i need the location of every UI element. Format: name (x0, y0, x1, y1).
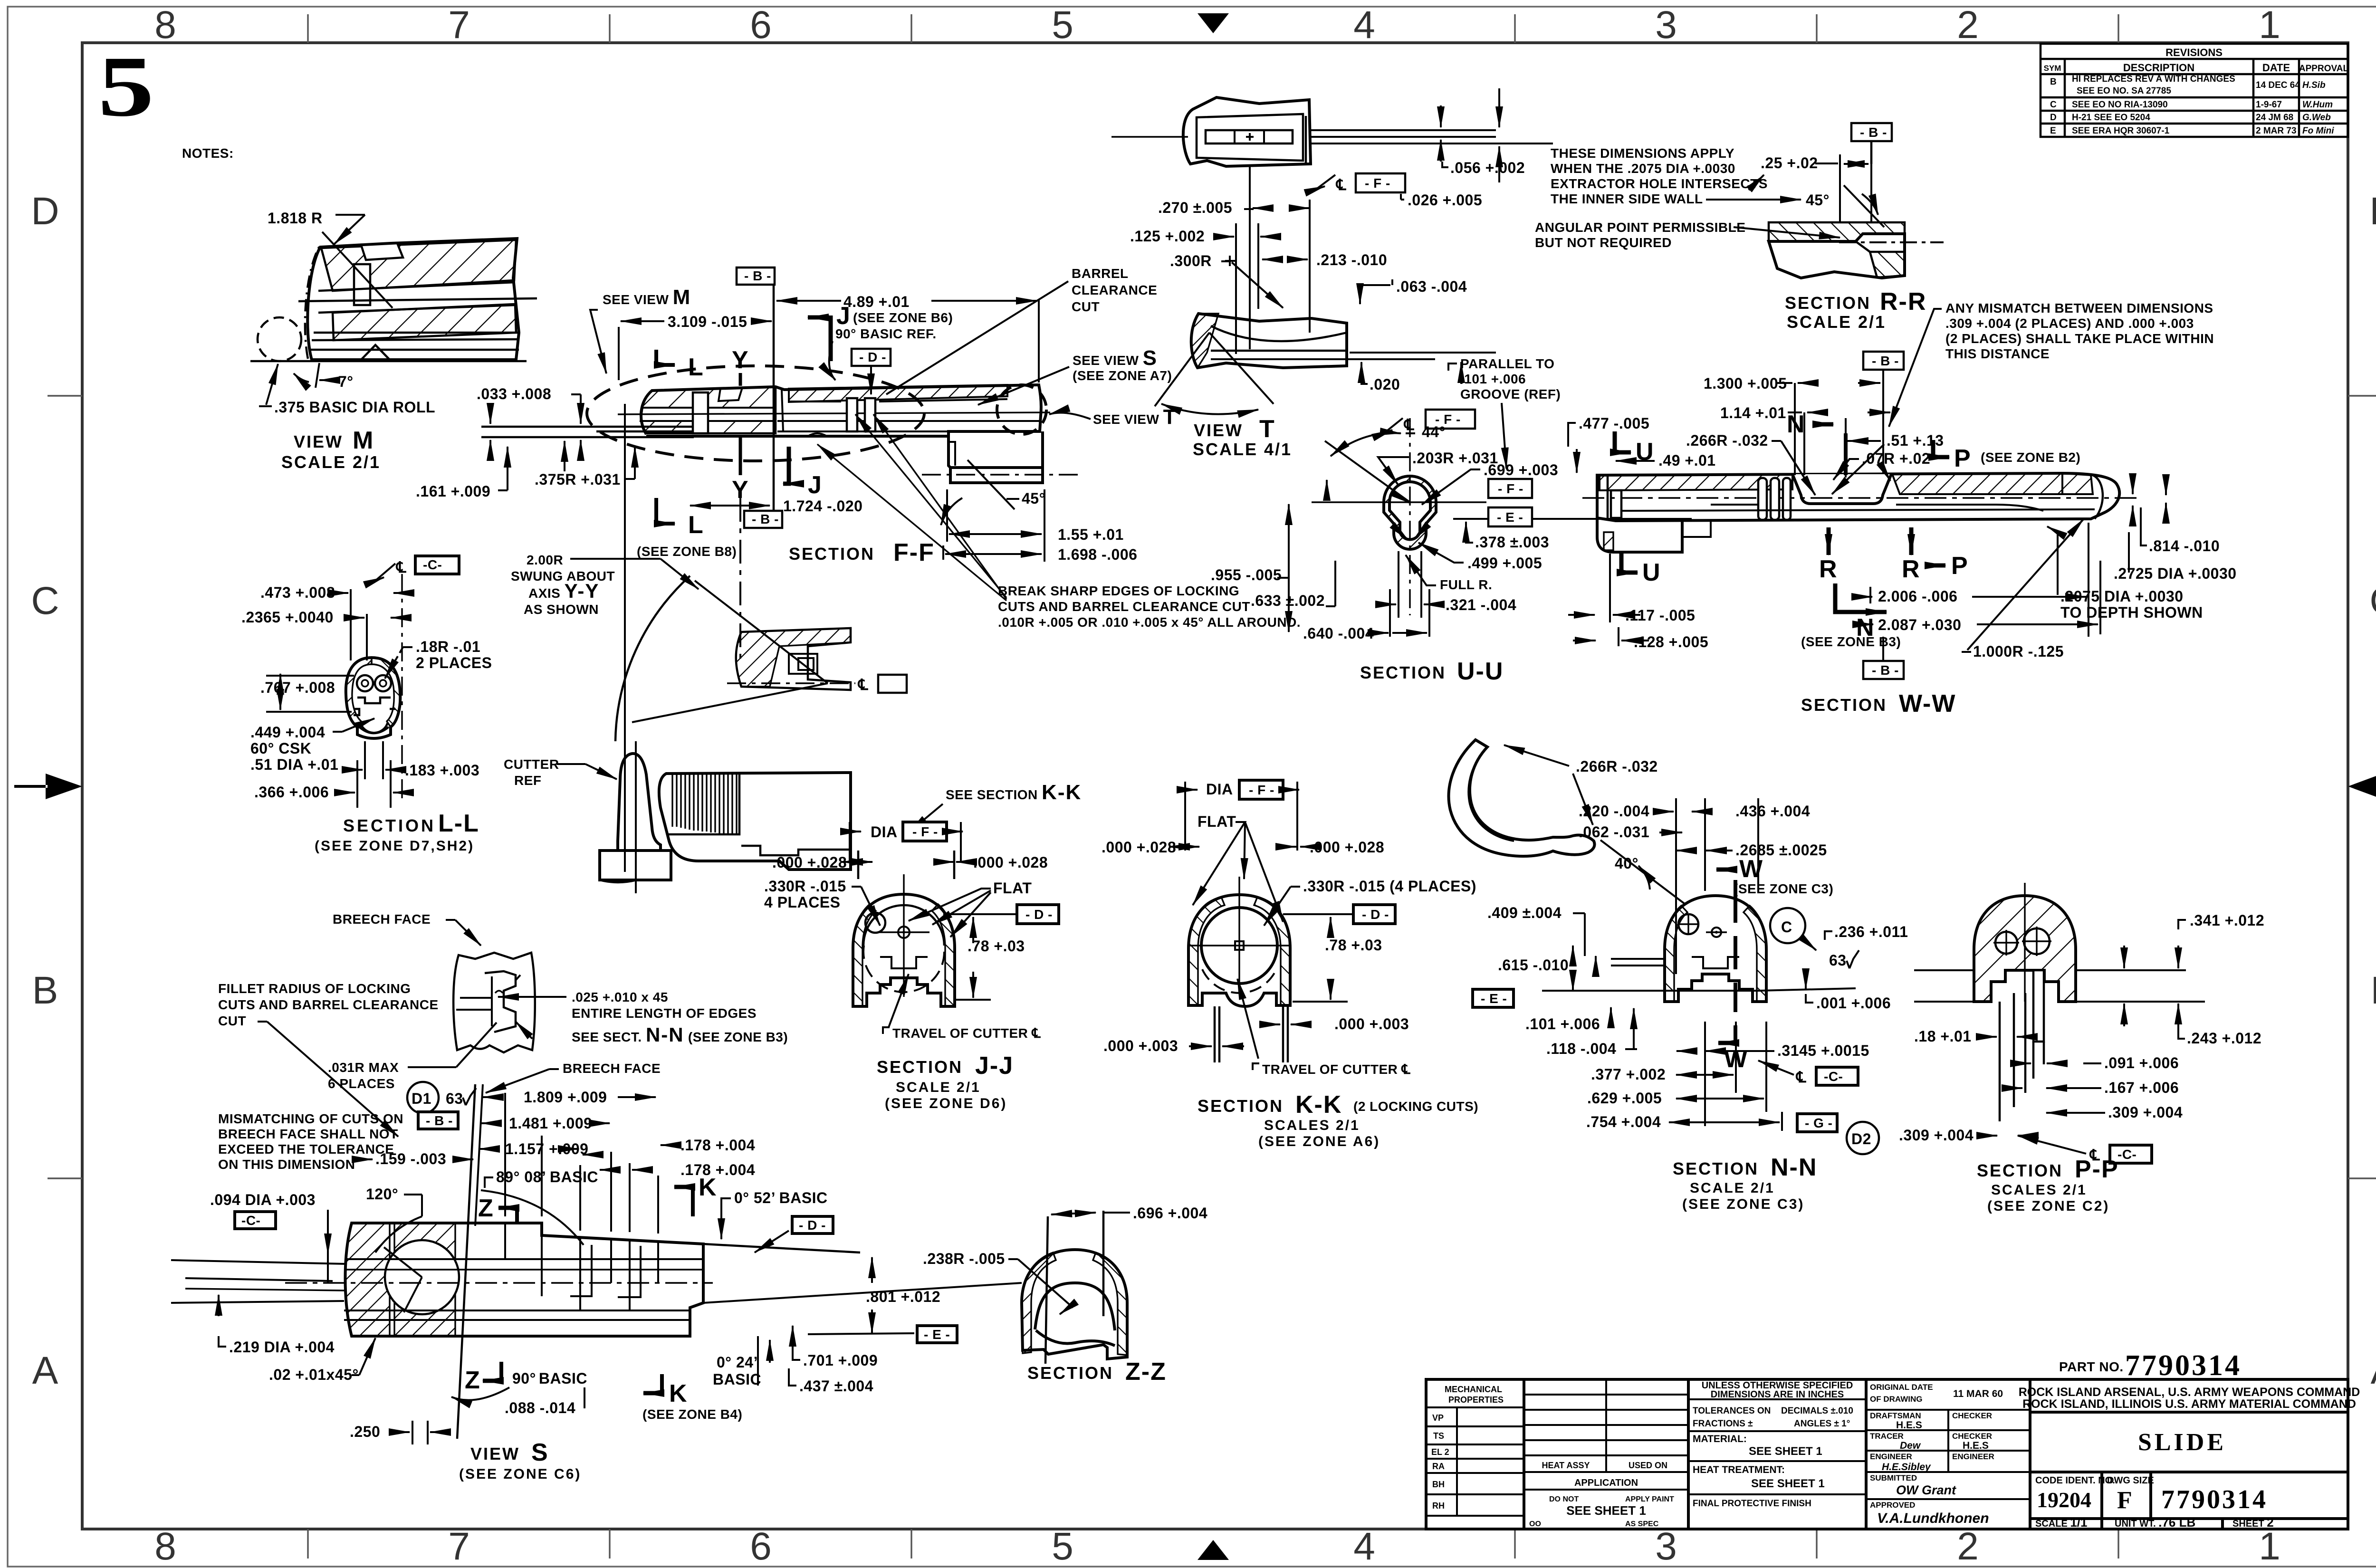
right end curve (2093, 475, 2103, 519)
svg-text:.330R -.015: .330R -.015 (764, 878, 846, 895)
svg-text:(SEE ZONE B2): (SEE ZONE B2) (1981, 450, 2080, 465)
svg-text:.000 +.028: .000 +.028 (1102, 839, 1176, 856)
svg-text:90°BASIC: 90°BASIC (512, 1370, 587, 1387)
svg-text:SECTION: SECTION (1673, 1159, 1759, 1178)
svg-text:ANGLES ± 1°: ANGLES ± 1° (1794, 1419, 1850, 1429)
svg-text:B: B (2371, 969, 2376, 1012)
left end details (1607, 475, 1609, 518)
svg-text:U: U (1642, 559, 1661, 586)
svg-text:(SEE ZONE D7,SH2): (SEE ZONE D7,SH2) (315, 838, 474, 854)
inner steps of blank (667, 808, 680, 834)
mech properties cell (1426, 1407, 1524, 1516)
svg-text:.366 +.006: .366 +.006 (254, 784, 329, 801)
svg-text:℄: ℄ (395, 559, 406, 576)
groove U channel (1792, 474, 1891, 504)
-E- box (1473, 989, 1514, 1007)
svg-text:TOLERANCES ON: TOLERANCES ON (1693, 1406, 1771, 1416)
dim 7 deg (316, 363, 319, 388)
broken-out chamfer detail (453, 953, 535, 1052)
svg-text:(SEE ZONE A6): (SEE ZONE A6) (1258, 1134, 1380, 1149)
svg-text:SEE EO NO RIA-13090: SEE EO NO RIA-13090 (2072, 100, 2168, 110)
svg-text:FULL R.: FULL R. (1440, 577, 1492, 592)
svg-text:MECHANICAL: MECHANICAL (1445, 1385, 1502, 1394)
svg-text:1.000R -.125: 1.000R -.125 (1973, 643, 2064, 660)
svg-text:ENGINEER: ENGINEER (1952, 1452, 1994, 1461)
CL -C- (1758, 1061, 1794, 1075)
svg-text:.266R -.032: .266R -.032 (1686, 432, 1768, 449)
svg-text:W: W (1739, 855, 1763, 883)
body outline (302, 1220, 696, 1338)
svg-text:.101 +.006: .101 +.006 (1525, 1015, 1600, 1033)
svg-text:CHECKER: CHECKER (1952, 1411, 1992, 1420)
svg-text:H-21 SEE EO 5204: H-21 SEE EO 5204 (2072, 113, 2150, 123)
svg-text:1.818 R: 1.818 R (268, 210, 323, 227)
svg-text:EXCEED THE TOLERANCE: EXCEED THE TOLERANCE (218, 1142, 394, 1157)
svg-text:BREECH FACE: BREECH FACE (333, 912, 431, 927)
lower blob (1191, 314, 1347, 368)
svg-text:.409 ±.004: .409 ±.004 (1487, 904, 1562, 921)
svg-text:GROOVE (REF): GROOVE (REF) (1460, 387, 1561, 402)
.78 dim (972, 917, 974, 943)
svg-text:THESE DIMENSIONS APPLY: THESE DIMENSIONS APPLY (1551, 146, 1734, 161)
svg-text:(SEE ZONE C3): (SEE ZONE C3) (1682, 1196, 1804, 1212)
dim .026 (1498, 88, 1500, 127)
svg-text:5: 5 (1052, 3, 1073, 47)
svg-text:J-J: J-J (975, 1052, 1014, 1080)
svg-text:U-U: U-U (1457, 658, 1504, 685)
svg-text:.236 +.011: .236 +.011 (1834, 923, 1908, 940)
svg-text:CUTS AND BARREL CLEARANCE: CUTS AND BARREL CLEARANCE (218, 997, 439, 1012)
svg-text:0° 24’: 0° 24’ (717, 1354, 758, 1371)
svg-text:VP: VP (1432, 1413, 1444, 1423)
svg-text:BUT NOT REQUIRED: BUT NOT REQUIRED (1535, 235, 1672, 250)
small circle + center (865, 913, 885, 933)
svg-text:.088 -.014: .088 -.014 (505, 1399, 575, 1416)
centerline (1582, 497, 2138, 498)
svg-text:SECTION: SECTION (1360, 663, 1446, 682)
svg-text:F-F: F-F (893, 539, 935, 566)
svg-text:BARREL: BARREL (1072, 266, 1129, 281)
hatched walls (1188, 897, 1225, 1005)
top hatch strip left (1600, 474, 1792, 490)
svg-text:FLAT: FLAT (1198, 813, 1236, 830)
svg-text:DIMENSIONS ARE IN INCHES: DIMENSIONS ARE IN INCHES (1711, 1389, 1844, 1400)
svg-text:63: 63 (446, 1090, 463, 1107)
svg-text:63: 63 (1829, 952, 1847, 969)
svg-text:DATE: DATE (2262, 62, 2290, 74)
svg-text:SCALE 2/1: SCALE 2/1 (281, 452, 381, 472)
bottom bump (361, 345, 390, 360)
svg-text:.633 ±.002: .633 ±.002 (1251, 592, 1325, 609)
.117 (1597, 554, 1598, 622)
side hatched walls (853, 904, 876, 1006)
roll circle (dashed) (258, 317, 301, 361)
dim .056 (1440, 105, 1442, 127)
.025 x45 note (498, 996, 566, 998)
svg-text:.78 +.03: .78 +.03 (1325, 937, 1382, 954)
svg-text:CUTS AND BARREL CLEARANCE CUT: CUTS AND BARREL CLEARANCE CUT (998, 599, 1250, 614)
svg-text:RH: RH (1432, 1501, 1445, 1511)
svg-text:- D -: - D - (799, 1218, 826, 1233)
svg-text:K-K: K-K (1295, 1091, 1342, 1119)
svg-text:SYM: SYM (2044, 64, 2061, 73)
dome body (1188, 895, 1290, 1006)
svg-text:-C-: -C- (241, 1213, 260, 1228)
svg-text:DIA: DIA (1206, 781, 1233, 798)
svg-text:.49 +.01: .49 +.01 (1658, 452, 1716, 469)
svg-text:(SEE ZONE B3): (SEE ZONE B3) (1801, 634, 1901, 649)
top notch (361, 243, 403, 260)
svg-text:WHEN THE .2075 DIA +.0030: WHEN THE .2075 DIA +.0030 (1551, 161, 1735, 176)
long vertical axis lines down to cutter view (624, 404, 626, 872)
dim .213 (1262, 258, 1283, 260)
CL -F- top (1384, 418, 1403, 433)
svg-text:7: 7 (448, 3, 470, 47)
cutter body (618, 754, 661, 851)
hatched left region with bore circle (345, 1223, 456, 1336)
svg-text:8: 8 (154, 1525, 176, 1568)
dim 1.698 (942, 545, 944, 560)
svg-text:C: C (2050, 100, 2057, 110)
svg-text:AS SPEC: AS SPEC (1625, 1520, 1659, 1528)
svg-text:.062 -.031: .062 -.031 (1579, 823, 1649, 841)
svg-text:D1: D1 (412, 1090, 431, 1107)
svg-text:N-N: N-N (1771, 1154, 1817, 1181)
svg-text:.159 -.003: .159 -.003 (375, 1150, 446, 1167)
horizontal lines (1914, 969, 1973, 971)
B box + line (1851, 123, 1892, 141)
svg-text:3: 3 (1655, 3, 1677, 47)
svg-text:2.00R: 2.00R (527, 553, 563, 567)
2.087 dim (2099, 561, 2101, 634)
svg-text:T: T (1259, 415, 1275, 443)
lower left block (1597, 518, 1682, 552)
svg-text:R: R (1819, 555, 1838, 583)
dashed inspection ellipse (587, 366, 924, 461)
svg-text:HEAT ASSY: HEAT ASSY (1542, 1461, 1590, 1470)
svg-text:APPLICATION: APPLICATION (1574, 1478, 1638, 1488)
svg-text:K: K (669, 1380, 688, 1407)
.2725 (2165, 478, 2167, 495)
horizontal guide lines (266, 675, 354, 677)
T slot (867, 957, 928, 993)
svg-text:.321 -.004: .321 -.004 (1446, 596, 1516, 613)
centerline horizontal (1111, 136, 1188, 137)
svg-text:.000 +.003: .000 +.003 (1334, 1015, 1409, 1033)
bore white band (641, 408, 776, 421)
svg-text:.955 -.005: .955 -.005 (1211, 566, 1282, 583)
svg-text:OW Grant: OW Grant (1896, 1483, 1956, 1497)
svg-text:.437 ±.004: .437 ±.004 (799, 1377, 873, 1395)
svg-text:.117 -.005: .117 -.005 (1625, 607, 1695, 624)
svg-text:.767 +.008: .767 +.008 (260, 679, 335, 696)
svg-text:ORIGINAL DATE: ORIGINAL DATE (1870, 1383, 1933, 1392)
keyhole outer (1384, 476, 1436, 549)
1.000R (1967, 519, 2084, 650)
svg-text:.701 +.009: .701 +.009 (803, 1352, 878, 1369)
svg-text:L: L (688, 354, 704, 381)
svg-text:1: 1 (2259, 1525, 2280, 1568)
svg-text:.375R +.031: .375R +.031 (535, 471, 621, 488)
svg-text:SECTION: SECTION (1027, 1363, 1113, 1383)
svg-text:BREECH FACE SHALL NOT: BREECH FACE SHALL NOT (218, 1127, 398, 1141)
svg-text:℄: ℄ (857, 676, 868, 693)
internal horizontal lines (346, 1258, 703, 1260)
B box bottom (744, 511, 782, 528)
svg-text:.091 +.006: .091 +.006 (2104, 1054, 2179, 1071)
svg-text:W-W: W-W (1899, 690, 1956, 717)
bottom lug (948, 431, 1043, 468)
svg-text:- B -: - B - (1872, 354, 1899, 368)
svg-text:C: C (1781, 918, 1792, 936)
svg-text:USED ON: USED ON (1629, 1461, 1667, 1470)
svg-text:L-L: L-L (438, 810, 479, 837)
svg-text:.02 +.01x45°: .02 +.01x45° (269, 1366, 359, 1383)
svg-text:DECIMALS ±.010: DECIMALS ±.010 (1781, 1406, 1853, 1416)
fan arc (615, 576, 690, 741)
dim .696 (1051, 1213, 1096, 1214)
svg-text:ANGULAR POINT PERMISSIBLE: ANGULAR POINT PERMISSIBLE (1535, 220, 1745, 235)
svg-text:- F -: - F - (1498, 481, 1523, 496)
svg-text:TRAVEL OF CUTTER ℄: TRAVEL OF CUTTER ℄ (892, 1026, 1041, 1041)
CL -F- label (1316, 175, 1335, 189)
svg-text:APPROVAL: APPROVAL (2299, 64, 2349, 74)
svg-text:.026 +.005: .026 +.005 (1408, 191, 1482, 209)
svg-text:J: J (836, 302, 851, 330)
svg-text:VIEW: VIEW (470, 1444, 520, 1463)
svg-text:.25 +.02: .25 +.02 (1761, 154, 1818, 172)
svg-text:- F -: - F - (1365, 176, 1390, 191)
svg-text:TS: TS (1433, 1431, 1444, 1441)
.2075 (2047, 526, 2058, 595)
slanted tail lines to ZZ (703, 1244, 860, 1252)
V lines 90 deg (1155, 333, 1209, 406)
svg-text:D2: D2 (1851, 1130, 1871, 1147)
svg-text:.3145 +.0015: .3145 +.0015 (1777, 1042, 1869, 1059)
svg-text:6 PLACES: 6 PLACES (328, 1076, 395, 1091)
svg-text:.125 +.002: .125 +.002 (1130, 228, 1205, 245)
svg-text:Dew: Dew (1900, 1440, 1921, 1451)
svg-text:(SEE ZONE B8): (SEE ZONE B8) (637, 544, 737, 559)
svg-text:.07R +.02: .07R +.02 (1862, 450, 1930, 467)
verticals .696 (1045, 1216, 1048, 1364)
dome outer (1022, 1250, 1127, 1359)
svg-text:0° 52’ BASIC: 0° 52’ BASIC (734, 1189, 828, 1206)
svg-text:FLAT: FLAT (993, 880, 1032, 897)
svg-text:1.300 +.005: 1.300 +.005 (1704, 375, 1787, 392)
svg-text:PARALLEL TO: PARALLEL TO (1460, 356, 1554, 371)
svg-text:6: 6 (750, 3, 772, 47)
40 deg diagonal (1600, 840, 1685, 904)
-D- box (792, 1216, 833, 1233)
title block (1426, 1349, 2360, 1530)
svg-text:.243 +.012: .243 +.012 (2187, 1030, 2261, 1047)
dim 1.481 (481, 1122, 501, 1124)
svg-text:(SEE ZONE B4): (SEE ZONE B4) (642, 1407, 742, 1422)
svg-text:C: C (2369, 579, 2376, 622)
locking cut verticals inside body (505, 1223, 658, 1310)
centerline vertical (401, 574, 402, 798)
svg-text:.309 +.004: .309 +.004 (2108, 1104, 2183, 1121)
svg-text:4: 4 (1353, 3, 1375, 47)
svg-text:.001 +.006: .001 +.006 (1816, 994, 1891, 1012)
svg-text:.270 ±.005: .270 ±.005 (1158, 199, 1232, 216)
svg-text:REVISIONS: REVISIONS (2165, 47, 2223, 58)
svg-text:SCALE 4/1: SCALE 4/1 (1193, 440, 1292, 459)
svg-text:FILLET RADIUS OF LOCKING: FILLET RADIUS OF LOCKING (218, 981, 411, 996)
svg-text:(SEE ZONE D6): (SEE ZONE D6) (885, 1096, 1007, 1111)
svg-text:.010R +.005 OR .010 +.005 x 45: .010R +.005 OR .010 +.005 x 45° ALL AROU… (998, 615, 1301, 630)
locking lug bars (847, 398, 857, 431)
-B- box (418, 1112, 458, 1129)
dim 1.157 (479, 1148, 499, 1150)
svg-text:.629 +.005: .629 +.005 (1587, 1090, 1662, 1107)
svg-text:.219 DIA +.004: .219 DIA +.004 (229, 1339, 335, 1356)
svg-text:EXTRACTOR HOLE INTERSECTS: EXTRACTOR HOLE INTERSECTS (1551, 176, 1768, 191)
svg-text:.020: .020 (1370, 376, 1400, 393)
svg-text:.754 +.004: .754 +.004 (1586, 1113, 1661, 1130)
svg-text:P: P (1954, 445, 1972, 472)
svg-text:SECTION: SECTION (343, 816, 436, 835)
tolerance cell (1688, 1399, 1866, 1494)
U bottom (1621, 554, 1638, 573)
ground line (250, 360, 527, 363)
svg-text:W.Hum: W.Hum (2302, 100, 2333, 110)
dim .183 (364, 741, 366, 779)
view M body (307, 239, 519, 360)
wavy bottom (1036, 1330, 1115, 1346)
R R P bottom (1827, 527, 1831, 555)
svg-text:CLEARANCE: CLEARANCE (1072, 283, 1157, 297)
svg-text:RA: RA (1432, 1462, 1445, 1471)
top hatch strip right (1892, 473, 2093, 494)
svg-text:HEAT TREATMENT:: HEAT TREATMENT: (1693, 1464, 1785, 1475)
slide profile inside fan (hatched) (736, 628, 851, 690)
hatched wall left/right (346, 658, 372, 727)
svg-text:(SEE ZONE B6): (SEE ZONE B6) (853, 310, 953, 325)
datum B vertical line (773, 284, 775, 512)
svg-text:1.724 -.020: 1.724 -.020 (783, 497, 862, 515)
svg-text:TRAVEL OF CUTTER ℄: TRAVEL OF CUTTER ℄ (1262, 1062, 1411, 1077)
svg-text:- E -: - E - (924, 1327, 950, 1342)
svg-text:FINAL PROTECTIVE FINISH: FINAL PROTECTIVE FINISH (1693, 1499, 1811, 1509)
svg-text:THIS DISTANCE: THIS DISTANCE (1945, 346, 2050, 361)
svg-text:.118 -.004: .118 -.004 (1546, 1040, 1616, 1057)
svg-text:.341 +.012: .341 +.012 (2190, 912, 2264, 929)
C circle (1770, 908, 1805, 943)
svg-text:45°: 45° (1022, 490, 1045, 507)
.640 dim (1389, 589, 1391, 637)
.128 (1618, 627, 1619, 646)
holes (1995, 932, 2017, 954)
svg-text:3: 3 (1655, 1525, 1677, 1568)
.243 (2177, 1004, 2179, 1026)
svg-text:AS SHOWN: AS SHOWN (524, 602, 599, 617)
breech face slanted double line (457, 1084, 475, 1439)
svg-text:.178 +.004: .178 +.004 (680, 1137, 755, 1154)
slide blank under cutter (659, 773, 851, 870)
svg-text:.375 BASIC DIA ROLL: .375 BASIC DIA ROLL (274, 399, 435, 416)
svg-text:K: K (699, 1174, 718, 1201)
B datum top (1863, 352, 1904, 370)
.814 (2132, 481, 2134, 494)
svg-text:.309 +.004: .309 +.004 (1899, 1127, 1974, 1144)
svg-text:℄: ℄ (1795, 1069, 1806, 1086)
svg-text:Z-Z: Z-Z (1125, 1358, 1167, 1386)
svg-text:H.E.S: H.E.S (1963, 1440, 1989, 1451)
svg-text:PART NO.: PART NO. (2059, 1359, 2124, 1374)
svg-text:.031R MAX: .031R MAX (328, 1060, 399, 1075)
FULL R arrows inside (1392, 525, 1408, 539)
top hatch strip right part (789, 385, 1007, 402)
svg-text:.300R: .300R (1170, 252, 1212, 269)
svg-text:.128 +.005: .128 +.005 (1634, 633, 1708, 650)
revisions table (2041, 44, 2348, 137)
svg-text:P-P: P-P (2075, 1156, 2119, 1183)
vertical centerline (1249, 166, 1251, 349)
svg-text:(2 LOCKING CUTS): (2 LOCKING CUTS) (1353, 1099, 1478, 1114)
.955 / .633 vertical dim (1288, 504, 1290, 632)
svg-text:.000 +.028: .000 +.028 (772, 854, 847, 871)
middle detail lines (777, 390, 1041, 431)
svg-text:.18 +.01: .18 +.01 (1914, 1028, 1972, 1045)
2.006 dim (1869, 587, 1871, 603)
B box top (737, 268, 775, 285)
svg-text:.000 +.028: .000 +.028 (973, 854, 1048, 871)
-D- box (1283, 913, 1353, 915)
45 arc (1862, 194, 1878, 215)
svg-text:S: S (531, 1439, 549, 1466)
svg-text:SCALE 2/1: SCALE 2/1 (896, 1080, 981, 1095)
body: egg shaped section (346, 658, 400, 738)
svg-text:- D -: - D - (1362, 907, 1389, 922)
svg-text:- G -: - G - (1805, 1116, 1833, 1130)
svg-text:.377 +.002: .377 +.002 (1591, 1066, 1666, 1083)
svg-text:B: B (2050, 77, 2057, 87)
svg-text:.814 -.010: .814 -.010 (2149, 537, 2220, 555)
svg-text:7: 7 (448, 1525, 470, 1568)
serration bars (1758, 478, 1767, 520)
svg-text:SUBMITTED: SUBMITTED (1870, 1473, 1917, 1482)
svg-text:120°: 120° (366, 1186, 398, 1203)
P top (1933, 440, 1949, 457)
dome body (853, 894, 955, 1006)
svg-text:.161 +.009: .161 +.009 (416, 483, 490, 500)
svg-text:1.14 +.01: 1.14 +.01 (1720, 404, 1786, 421)
svg-text:M: M (353, 427, 374, 454)
svg-text:OF DRAWING: OF DRAWING (1870, 1395, 1923, 1404)
inner circle (1201, 908, 1277, 984)
svg-text:APPROVED: APPROVED (1870, 1501, 1915, 1510)
svg-text:.449 +.004: .449 +.004 (250, 724, 325, 741)
svg-text:VIEW: VIEW (1194, 421, 1243, 440)
svg-text:V.A.Lundkhonen: V.A.Lundkhonen (1877, 1511, 1989, 1526)
svg-text:ENTIRE LENGTH OF EDGES: ENTIRE LENGTH OF EDGES (572, 1006, 757, 1021)
svg-text:2 PLACES: 2 PLACES (416, 654, 492, 671)
svg-text:.094 DIA +.003: .094 DIA +.003 (210, 1191, 316, 1208)
svg-text:SCALES 2/1: SCALES 2/1 (1264, 1118, 1360, 1133)
svg-text:.477 -.005: .477 -.005 (1579, 415, 1649, 432)
svg-text:.101 +.006: .101 +.006 (1460, 372, 1526, 386)
svg-text:ROCK ISLAND, ILLINOIS U.S. ARM: ROCK ISLAND, ILLINOIS U.S. ARMY MATERIAL… (2022, 1397, 2356, 1411)
svg-text:7790314: 7790314 (2161, 1485, 2268, 1514)
svg-text:E: E (2050, 126, 2056, 136)
svg-text:P: P (1951, 552, 1969, 580)
svg-text:D: D (2050, 113, 2057, 123)
.238R tail label (936, 1259, 946, 1264)
svg-text:D: D (31, 190, 59, 233)
svg-text:24 JM 68: 24 JM 68 (2256, 113, 2293, 123)
